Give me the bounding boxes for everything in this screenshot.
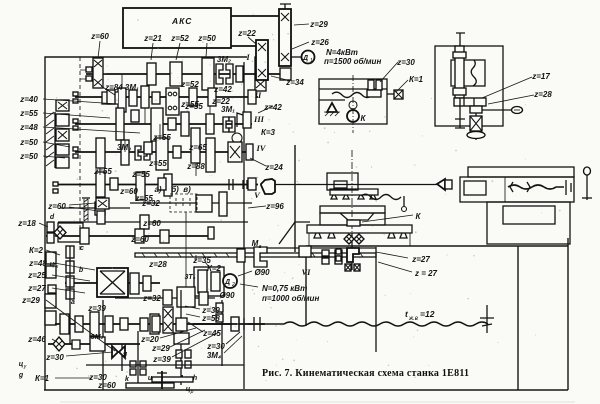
- svg-text:z=39: z=39: [152, 355, 171, 364]
- svg-text:z=34: z=34: [285, 78, 304, 87]
- svg-text:ж.в: ж.в: [408, 316, 418, 322]
- svg-text:z=29: z=29: [21, 296, 40, 305]
- svg-text:z=27: z=27: [27, 284, 46, 293]
- svg-text:z=20: z=20: [140, 335, 159, 344]
- svg-text:z=45: z=45: [202, 329, 221, 338]
- svg-text:z=65: z=65: [188, 143, 207, 152]
- svg-text:Ø90: Ø90: [219, 291, 235, 300]
- svg-text:z=58: z=58: [201, 314, 220, 323]
- svg-text:II: II: [254, 90, 262, 100]
- svg-text:3М₂: 3М₂: [91, 334, 104, 341]
- svg-text:z=28: z=28: [533, 90, 552, 99]
- svg-text:z=30: z=30: [396, 58, 415, 67]
- svg-text:z=28: z=28: [148, 260, 167, 269]
- svg-text:N=0,75 кВт: N=0,75 кВт: [262, 284, 307, 293]
- svg-text:z=52: z=52: [170, 34, 189, 43]
- svg-text:z=60: z=60: [97, 381, 116, 390]
- svg-text:z=60: z=60: [119, 187, 138, 196]
- svg-text:I: I: [245, 52, 250, 62]
- svg-text:а): а): [154, 185, 161, 194]
- svg-text:g: g: [18, 372, 24, 379]
- svg-text:z=50: z=50: [19, 138, 38, 147]
- svg-text:=12: =12: [420, 309, 435, 319]
- svg-text:Д: Д: [302, 55, 308, 62]
- svg-text:Рис. 7. Кинематическая схема: Рис. 7. Кинематическая схема станка 1Е81…: [262, 368, 469, 379]
- svg-text:К: К: [416, 212, 422, 221]
- svg-text:z=26: z=26: [310, 38, 329, 47]
- svg-text:a: a: [71, 299, 75, 306]
- svg-text:d: d: [50, 214, 55, 221]
- svg-text:К=2: К=2: [29, 246, 44, 255]
- svg-text:z=32: z=32: [142, 294, 161, 303]
- svg-text:z=46: z=46: [27, 335, 46, 344]
- svg-text:z=55: z=55: [93, 167, 112, 176]
- svg-text:z=18: z=18: [17, 219, 36, 228]
- svg-text:z=21: z=21: [143, 34, 162, 43]
- svg-text:z=84 3М₁: z=84 3М₁: [104, 83, 139, 92]
- svg-text:р: р: [190, 389, 194, 395]
- svg-text:z=50: z=50: [197, 34, 216, 43]
- svg-text:z=96: z=96: [265, 202, 284, 211]
- svg-text:k: k: [125, 376, 130, 383]
- svg-text:К=2: К=2: [207, 264, 222, 273]
- svg-text:К: К: [361, 114, 367, 123]
- svg-text:c: c: [80, 245, 84, 252]
- svg-text:3М₄: 3М₄: [207, 351, 221, 360]
- svg-text:АКС: АКС: [171, 16, 192, 26]
- svg-text:К=3: К=3: [261, 128, 276, 137]
- svg-text:z=32: z=32: [141, 199, 160, 208]
- svg-text:z=60: z=60: [90, 32, 109, 41]
- svg-text:2: 2: [231, 282, 235, 288]
- svg-text:z=60: z=60: [130, 235, 149, 244]
- svg-text:z=17: z=17: [531, 72, 550, 81]
- svg-text:z=55: z=55: [184, 102, 203, 111]
- svg-text:п=1000 об/мин: п=1000 об/мин: [262, 294, 319, 303]
- svg-text:h: h: [193, 375, 197, 382]
- svg-text:К=1: К=1: [35, 374, 50, 383]
- svg-text:z=55: z=55: [131, 170, 150, 179]
- svg-text:и: и: [148, 375, 153, 382]
- svg-text:п=1500 об/мин: п=1500 об/мин: [324, 57, 381, 66]
- svg-text:Д: Д: [224, 279, 230, 286]
- svg-text:z=48: z=48: [28, 259, 47, 268]
- svg-text:VI: VI: [302, 267, 312, 277]
- svg-text:у: у: [23, 364, 27, 370]
- svg-text:3Т₅: 3Т₅: [185, 274, 196, 281]
- svg-text:z=22: z=22: [237, 29, 256, 38]
- svg-text:z=52: z=52: [180, 80, 199, 89]
- svg-text:z=39: z=39: [87, 304, 106, 313]
- svg-text:z=30: z=30: [45, 353, 64, 362]
- svg-text:z=60: z=60: [47, 202, 66, 211]
- svg-text:z=24: z=24: [264, 163, 283, 172]
- svg-text:N=4кВт: N=4кВт: [326, 48, 358, 57]
- svg-text:б): б): [171, 185, 179, 194]
- svg-text:z=29: z=29: [309, 20, 328, 29]
- svg-text:z=48: z=48: [19, 123, 38, 132]
- svg-text:в: в: [259, 244, 262, 250]
- svg-text:z=88: z=88: [186, 162, 205, 171]
- svg-text:V: V: [254, 190, 261, 200]
- svg-text:z=29: z=29: [151, 344, 170, 353]
- svg-text:3М₁: 3М₁: [221, 105, 235, 114]
- svg-text:IV: IV: [256, 143, 267, 153]
- svg-text:z=40: z=40: [19, 95, 38, 104]
- svg-text:М: М: [252, 239, 259, 248]
- svg-text:1: 1: [310, 58, 313, 64]
- svg-text:z=25: z=25: [27, 271, 46, 280]
- svg-text:z=60: z=60: [142, 219, 161, 228]
- svg-text:3М₃: 3М₃: [117, 143, 131, 152]
- svg-text:z=55: z=55: [19, 109, 38, 118]
- svg-text:z=30: z=30: [206, 342, 225, 351]
- svg-text:К=1: К=1: [409, 75, 424, 84]
- svg-text:b: b: [79, 267, 84, 274]
- svg-text:z=42: z=42: [213, 85, 232, 94]
- svg-text:z=27: z=27: [411, 255, 430, 264]
- svg-text:3М₂: 3М₂: [217, 55, 231, 64]
- svg-text:z=55: z=55: [148, 159, 167, 168]
- svg-text:z=42: z=42: [263, 103, 282, 112]
- svg-text:в): в): [183, 185, 191, 194]
- svg-text:z=50: z=50: [19, 152, 38, 161]
- svg-text:х: х: [55, 264, 59, 270]
- svg-text:Ø90: Ø90: [254, 268, 270, 277]
- svg-text:я: я: [122, 351, 127, 358]
- svg-text:z = 27: z = 27: [414, 269, 438, 278]
- svg-text:III: III: [253, 114, 265, 124]
- svg-text:z=55: z=55: [152, 133, 171, 142]
